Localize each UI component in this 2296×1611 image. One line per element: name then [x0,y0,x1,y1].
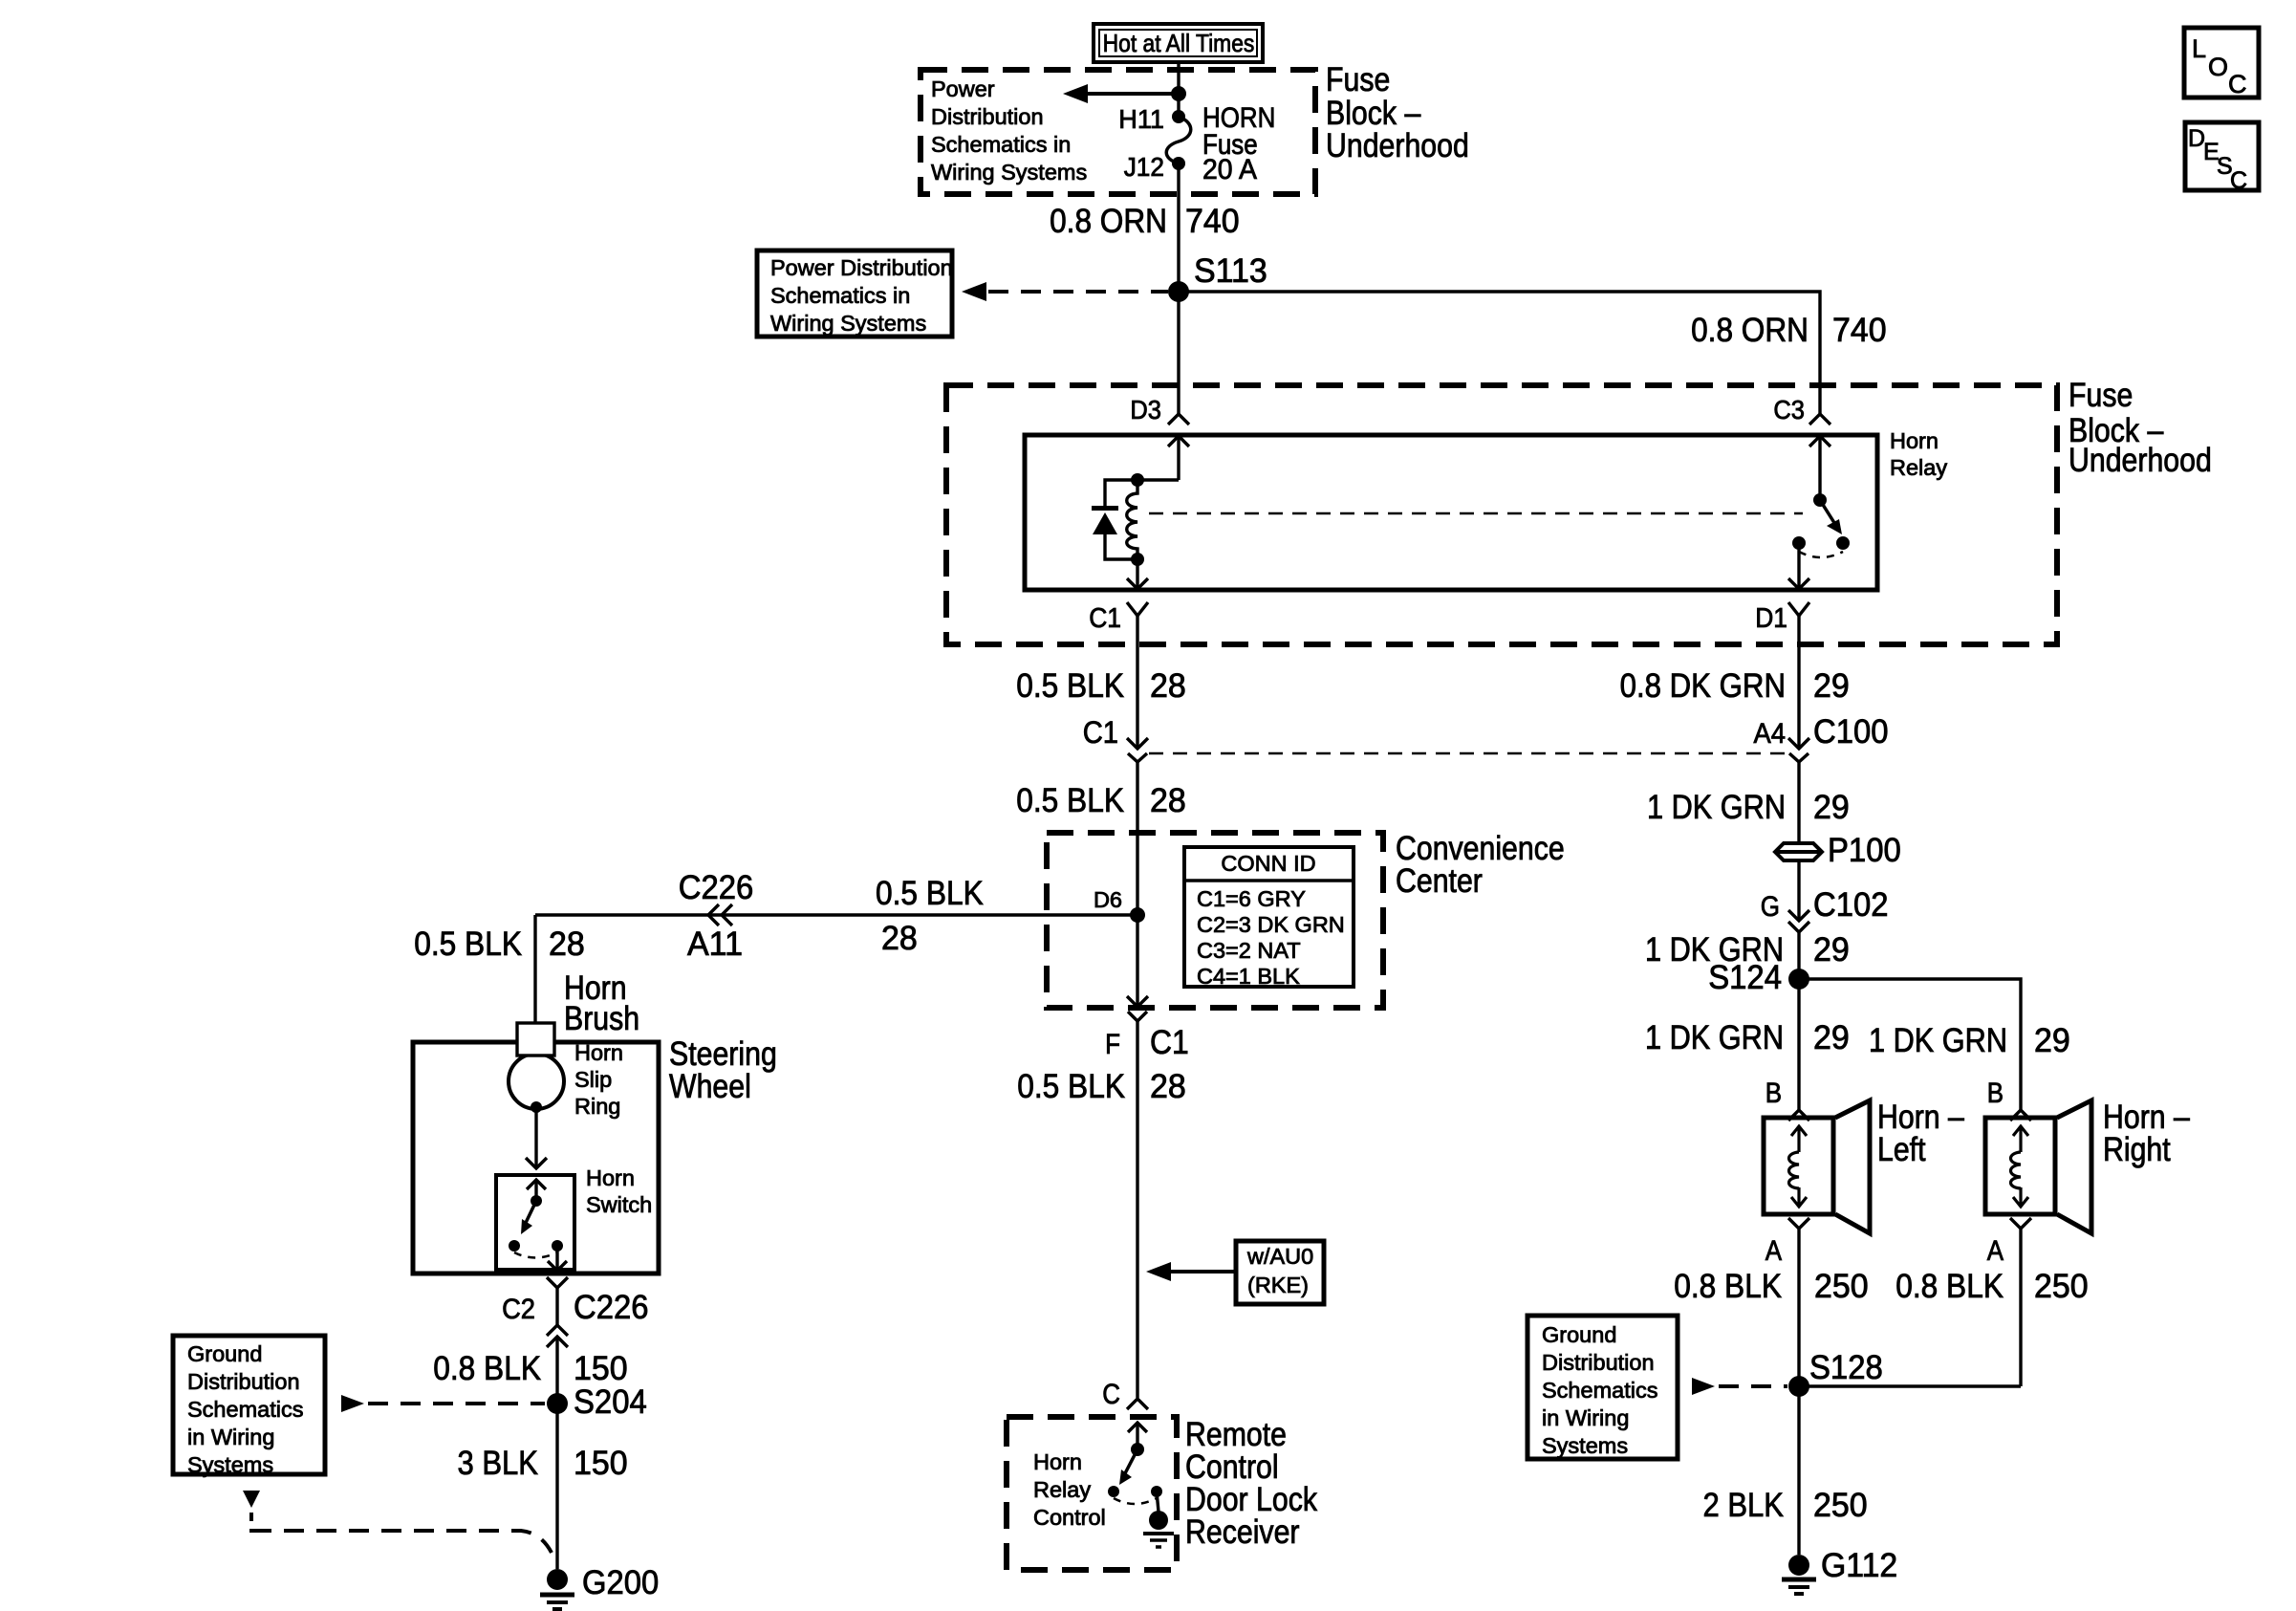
wire w/AU0 arrow [1167,1270,1236,1274]
wire 0.8 DK GRN 29 D1 down [1797,616,1800,749]
svg-text:S128: S128 [1809,1349,1883,1386]
svg-text:150: 150 [574,1445,628,1482]
dashed wire S113 to power distribution [988,290,1168,294]
label Steering Wheel [669,1035,777,1105]
svg-text:29: 29 [1813,931,1850,969]
contact receiver left [1108,1486,1119,1497]
svg-text:Ring: Ring [574,1094,620,1119]
connector chevrons G C102 [1788,910,1809,932]
arrowhead horn switch arm [521,1219,532,1234]
svg-text:F: F [1105,1029,1120,1060]
svg-text:P100: P100 [1828,832,1901,869]
svg-text:Horn: Horn [1890,428,1939,453]
svg-text:0.8 DK GRN: 0.8 DK GRN [1620,667,1786,705]
svg-text:Schematics: Schematics [187,1397,303,1422]
label Horn Brush [564,969,639,1037]
svg-text:1 DK GRN: 1 DK GRN [1647,789,1786,826]
connector chevron B (right horn) [2010,1110,2031,1121]
LOC letters [2192,34,2247,98]
dashed connector line C100 [1149,752,1787,755]
receiver ground dot [1149,1511,1168,1530]
svg-text:G: G [1761,891,1780,923]
wire receiver entry [1136,1423,1138,1444]
note ground distribution schematics (right) [1542,1322,1657,1458]
arrowhead out of relay at C1 [1127,578,1148,589]
svg-text:C2: C2 [502,1294,535,1325]
wire feed arrow (top box) [1086,92,1179,96]
dashed relay control link [1149,512,1803,515]
receiver switch arm [1124,1449,1137,1475]
Hot at All Times box inner [1099,30,1257,56]
svg-text:0.5 BLK: 0.5 BLK [1016,782,1124,819]
svg-text:150: 150 [574,1350,628,1387]
arrowhead receiver switch arm [1119,1469,1132,1485]
wire hot to fuse H11 [1177,62,1180,117]
arrowhead out of convenience center [1127,996,1148,1007]
svg-text:Right: Right [2103,1131,2171,1168]
wire D6 to steering column [535,913,1137,916]
svg-text:29: 29 [1813,667,1850,705]
horn brush contact box [517,1023,554,1056]
svg-text:D3: D3 [1130,395,1161,425]
node horn switch pivot [531,1195,542,1207]
arrowhead ground ref (left) [243,1491,260,1508]
w/AU0 RKE box [1236,1241,1324,1304]
svg-text:Fuse: Fuse [1326,61,1390,98]
svg-text:0.8 ORN: 0.8 ORN [1050,203,1167,240]
ground G112 dot [1788,1555,1809,1576]
svg-text:Distribution: Distribution [1542,1350,1655,1375]
ground symbol G112 [1782,1579,1816,1594]
svg-text:29: 29 [1813,789,1850,826]
wire relay switch feed [1818,436,1821,500]
dashed wire S128 to ground distribution [1719,1384,1787,1388]
svg-text:28: 28 [1150,1068,1186,1105]
splice S204 [547,1393,568,1414]
ground symbol G200 [540,1595,574,1609]
splice S113 [1168,281,1189,302]
wire P100 to C102 [1797,860,1800,921]
contact horn switch right [552,1240,563,1252]
connector Y below steering wheel [547,1277,568,1288]
svg-text:0.8 BLK: 0.8 BLK [433,1350,541,1387]
svg-text:G200: G200 [582,1564,659,1601]
wire slip ring to horn switch [534,1107,537,1168]
svg-text:29: 29 [2034,1022,2070,1059]
svg-text:C: C [1102,1379,1120,1410]
svg-text:in Wiring: in Wiring [187,1425,274,1449]
svg-text:0.8 BLK: 0.8 BLK [1674,1268,1782,1305]
node relay coil top [1131,473,1144,487]
svg-text:Schematics in: Schematics in [770,283,910,308]
node D6 [1130,907,1145,923]
dashed route to G200 [251,1531,552,1553]
connector Y below convenience center [1128,1012,1147,1021]
horn left coil element [1789,1126,1808,1207]
svg-text:28: 28 [1150,782,1186,819]
CONN ID separator [1184,879,1354,882]
svg-text:L: L [2192,34,2206,63]
svg-text:C1: C1 [1089,603,1121,634]
label Fuse Block - Underhood (relay) [2069,377,2212,479]
wire S124 to right horn [1799,979,2021,1110]
svg-text:250: 250 [1813,1487,1868,1524]
horn right speaker symbol [1985,1100,2091,1233]
connector Y A (left horn) [1788,1218,1809,1229]
svg-text:Left: Left [1877,1131,1926,1168]
horn relay K1 box [1025,435,1877,590]
svg-text:Receiver: Receiver [1185,1513,1300,1551]
arrowhead S128 dashed [1692,1378,1715,1395]
label HORN Fuse 20 A [1202,102,1275,185]
contact receiver right [1151,1486,1162,1497]
svg-text:J12: J12 [1124,152,1164,182]
node receiver switch pivot [1131,1443,1144,1456]
arrowhead relay switch arm [1827,519,1842,534]
svg-text:Ground: Ground [187,1341,262,1366]
svg-text:B: B [1765,1078,1782,1109]
svg-text:0.5 BLK: 0.5 BLK [1017,1068,1125,1105]
remote control door lock receiver box [1007,1417,1177,1570]
connector chevron C3 [1809,414,1830,425]
svg-text:C2=3 DK GRN: C2=3 DK GRN [1197,912,1345,937]
label Convenience Center [1396,830,1565,900]
wire 1 DK GRN 29 below C100 [1797,762,1800,841]
svg-text:C3=2 NAT: C3=2 NAT [1197,938,1301,963]
wire down to horn brush [533,915,536,1023]
svg-text:Distribution: Distribution [931,104,1044,129]
wire S113 to C3 [1179,292,1820,414]
connector male A4 C100 [1788,738,1809,749]
connector chevron into horn switch [526,1158,547,1168]
svg-text:Wiring Systems: Wiring Systems [770,311,926,336]
svg-text:Fuse: Fuse [2069,377,2133,414]
svg-text:Power Distribution: Power Distribution [770,255,953,280]
wire 0.8 BLK 150 to S204 [555,1337,558,1569]
svg-text:28: 28 [549,925,585,963]
wire 0.8 ORN 740 S113 to D3 [1177,292,1180,414]
svg-text:C3: C3 [1773,395,1805,425]
svg-text:740: 740 [1185,203,1240,240]
label Fuse Block - Underhood (top) [1326,61,1469,164]
horn slip ring [509,1054,564,1109]
wire C2 upper [555,1288,558,1325]
svg-text:Wiring Systems: Wiring Systems [931,160,1087,185]
svg-text:C: C [2228,70,2247,98]
arrowhead into relay at C3 [1809,436,1830,446]
arrowhead to power distribution [962,282,986,301]
connector chevron D3 [1168,414,1189,425]
fuse F1 HORN 20A symbol [1166,117,1191,163]
svg-text:H11: H11 [1118,104,1164,134]
ground distribution schematics box (left) [173,1336,325,1474]
pass-through grommet P100 [1775,843,1822,860]
ground symbol (receiver) [1143,1534,1174,1547]
svg-text:Horn: Horn [1033,1449,1082,1474]
wire 0.8 ORN 740 fuse to S113 [1177,163,1180,292]
svg-text:Distribution: Distribution [187,1369,300,1394]
DESC reference box [2185,122,2259,190]
svg-text:C100: C100 [1813,713,1889,751]
connector chevron B (left horn) [1788,1110,1809,1121]
contact relay switch common [1792,536,1806,550]
svg-text:Schematics: Schematics [1542,1378,1657,1403]
svg-text:in Wiring: in Wiring [1542,1405,1629,1430]
connector female C1 [1128,753,1147,762]
svg-text:740: 740 [1832,312,1887,349]
svg-text:CONN ID: CONN ID [1221,851,1315,876]
svg-text:A11: A11 [687,925,743,963]
label Horn Slip Ring [574,1040,623,1119]
wire horn switch to C2 [555,1246,558,1271]
CONN ID rows [1197,886,1345,989]
note power distribution schematics (S113) [770,255,953,336]
svg-text:C226: C226 [679,869,754,906]
svg-text:Brush: Brush [564,1000,639,1037]
svg-text:B: B [1987,1078,2004,1109]
wire 0.8 BLK 250 right horn [2019,1229,2022,1386]
svg-text:S113: S113 [1194,252,1267,290]
svg-text:1 DK GRN: 1 DK GRN [1645,1019,1784,1056]
svg-text:Power: Power [931,76,995,101]
svg-text:C1=6 GRY: C1=6 GRY [1197,886,1306,911]
svg-text:Underhood: Underhood [2069,442,2212,479]
wire S124 to left horn [1797,979,1800,1110]
svg-text:2 BLK: 2 BLK [1703,1487,1785,1524]
svg-text:Systems: Systems [1542,1433,1628,1458]
fuse block underhood box (top) [921,70,1315,194]
wire relay D3 entry [1177,436,1180,480]
svg-text:A: A [1765,1235,1782,1267]
svg-text:C4=1 BLK: C4=1 BLK [1197,964,1300,989]
svg-text:Systems: Systems [187,1452,273,1477]
svg-text:A4: A4 [1754,718,1787,750]
contact horn switch left [509,1240,520,1252]
diode CR1 (relay) [1092,506,1118,534]
svg-text:C102: C102 [1813,886,1889,924]
svg-text:29: 29 [1813,1019,1850,1056]
splice S128 [1788,1376,1809,1397]
wire right horn to S128 [1799,1384,2021,1387]
svg-text:Schematics in: Schematics in [931,132,1071,157]
svg-text:250: 250 [1814,1268,1869,1305]
wire 1 DK GRN 29 to S124 [1797,932,1800,979]
connector chevrons C226 (inline) [708,904,732,925]
svg-text:(RKE): (RKE) [1247,1273,1309,1297]
svg-text:G112: G112 [1821,1547,1897,1584]
label w/AU0 (RKE) [1246,1244,1313,1297]
horn right coil element [2011,1126,2029,1207]
wire 0.8 BLK 250 left horn [1797,1229,1800,1386]
svg-text:3 BLK: 3 BLK [458,1445,539,1482]
power distribution schematics box (S113) [757,250,952,337]
svg-text:0.8 ORN: 0.8 ORN [1691,312,1809,349]
arrowhead feed (top box) [1063,84,1088,103]
svg-text:S124: S124 [1708,959,1782,996]
node relay switch pivot [1813,493,1827,507]
svg-text:S204: S204 [574,1383,647,1421]
wire 2 BLK 250 to G112 [1797,1386,1800,1555]
connector female A4 C100 [1789,753,1809,762]
svg-text:O: O [2208,53,2228,81]
LOC reference box [2184,28,2259,98]
wire receiver contact to ground [1157,1491,1159,1512]
horn left speaker symbol [1764,1100,1870,1233]
arrowhead out of horn switch [548,1261,567,1271]
connector chevron C (receiver) [1127,1399,1148,1409]
dashed contact arc (receiver) [1114,1498,1157,1504]
svg-text:Underhood: Underhood [1326,127,1469,164]
svg-text:C: C [2230,167,2247,194]
note ground distribution schematics (left) [187,1341,303,1477]
wire 0.5 BLK 28 to receiver [1136,1021,1138,1398]
junction at fuse feed [1171,86,1186,101]
fuse terminal H11 [1172,110,1185,123]
arrowhead into receiver [1128,1423,1147,1432]
label Horn - Right [2103,1099,2190,1168]
svg-text:Center: Center [1396,862,1483,900]
label Horn Relay Control [1033,1449,1106,1530]
wire relay step to coil [1137,478,1179,481]
horn switch box [496,1175,574,1270]
svg-text:0.5 BLK: 0.5 BLK [414,925,522,963]
svg-text:Horn: Horn [574,1040,623,1065]
svg-text:w/AU0: w/AU0 [1246,1244,1313,1269]
relay coil L1 [1127,480,1137,559]
CONN ID table box [1184,847,1354,987]
label Horn Switch [586,1165,652,1217]
arrowhead w/AU0 [1146,1262,1171,1281]
wire switch to D1 exit [1797,543,1800,589]
DESC letters [2188,125,2247,194]
wire diode branch [1105,480,1137,559]
arrowhead into relay at D3 [1168,436,1189,446]
wire 0.5 BLK 28 C1 down [1136,616,1138,749]
svg-text:D6: D6 [1094,887,1122,912]
Hot at All Times box outer [1094,24,1263,62]
dashed contact arc (horn switch) [514,1252,557,1258]
fuse terminal J12 [1172,157,1185,170]
connector chevrons C2 C226 [547,1325,568,1347]
svg-text:20 A: 20 A [1202,154,1257,185]
svg-text:Ground: Ground [1542,1322,1616,1347]
dashed contact arc (relay) [1799,552,1843,557]
relay switch arm [1820,500,1836,526]
connector Y at D1 (relay) [1788,602,1809,616]
svg-text:Relay: Relay [1033,1477,1091,1502]
svg-text:D1: D1 [1755,603,1787,634]
dashed route to G200 (stub) [249,1513,253,1533]
svg-text:1 DK GRN: 1 DK GRN [1869,1022,2007,1059]
node relay coil bottom [1131,553,1144,566]
svg-text:C1: C1 [1150,1024,1189,1061]
svg-text:C226: C226 [574,1289,649,1326]
connector male C1 [1127,738,1148,749]
svg-text:Hot at All Times: Hot at All Times [1103,29,1255,57]
svg-text:28: 28 [881,920,918,957]
note power distribution schematics (top box) [931,76,1087,185]
svg-text:250: 250 [2034,1268,2089,1305]
steering wheel box [413,1042,659,1274]
svg-text:A: A [1987,1235,2004,1267]
svg-text:0.8 BLK: 0.8 BLK [1895,1268,2004,1305]
svg-text:Wheel: Wheel [669,1068,751,1105]
svg-text:Slip: Slip [574,1067,612,1092]
wire coil to C1 exit [1136,559,1138,589]
ground G200 dot [547,1569,568,1590]
svg-text:Relay: Relay [1890,455,1947,480]
svg-text:Switch: Switch [586,1192,652,1217]
connector Y at C1 (relay) [1127,602,1148,616]
fuse block underhood box (relay) [946,385,2057,644]
label Horn Relay [1890,428,1947,480]
svg-text:Horn: Horn [586,1165,635,1190]
horn switch arm [525,1201,536,1225]
splice S124 [1788,969,1809,990]
dashed wire S204 to ground distribution [368,1402,545,1405]
contact relay switch NO right [1836,536,1850,550]
ground distribution schematics box (right) [1527,1316,1678,1459]
wire horn switch entry [534,1180,537,1197]
arrowhead out of relay at D1 [1788,578,1809,589]
connector Y A (right horn) [2010,1218,2031,1229]
arrowhead into horn switch [527,1180,546,1189]
svg-text:C1: C1 [1083,715,1118,750]
arrowhead S204 dashed [341,1395,364,1412]
svg-text:0.5 BLK: 0.5 BLK [876,875,984,912]
svg-text:28: 28 [1150,667,1186,705]
svg-text:0.5 BLK: 0.5 BLK [1016,667,1124,705]
convenience center box [1047,833,1383,1008]
label Horn - Left [1877,1099,1964,1168]
node slip ring bottom [531,1101,542,1113]
label Remote Control Door Lock Receiver [1185,1416,1317,1551]
svg-text:Control: Control [1033,1505,1106,1530]
wire 0.5 BLK 28 below C1 [1136,762,1138,1006]
